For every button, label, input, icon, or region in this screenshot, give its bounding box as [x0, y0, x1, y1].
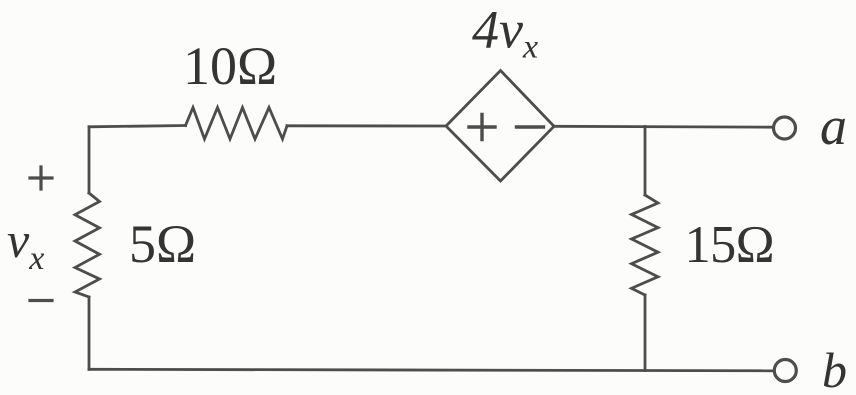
source plus sign	[469, 115, 495, 140]
wire left vertical lower	[88, 297, 91, 369]
wire right branch upper	[644, 127, 647, 196]
dependent source U1 diamond 4vx	[446, 71, 554, 182]
svg-text:vx: vx	[7, 212, 44, 277]
minus sign vx polarity	[30, 299, 52, 302]
svg-text:b: b	[822, 342, 847, 395]
wire right branch lower	[644, 295, 647, 371]
resistor R2 5ohm zigzag	[75, 193, 100, 297]
wire resistor to source	[287, 124, 446, 127]
wire source to terminal a	[554, 125, 774, 129]
resistor R1 10ohm zigzag	[186, 108, 288, 140]
source minus sign	[517, 125, 544, 128]
svg-text:15Ω: 15Ω	[685, 216, 774, 274]
terminal a circle	[774, 117, 796, 139]
svg-text:5Ω: 5Ω	[129, 214, 196, 274]
terminal b circle	[774, 360, 796, 382]
wire bottom horizontal	[89, 369, 775, 371]
svg-text:10Ω: 10Ω	[183, 36, 277, 96]
resistor R3 15ohm zigzag	[632, 195, 659, 295]
plus sign vx polarity	[30, 167, 52, 189]
svg-text:4vx: 4vx	[472, 0, 538, 66]
wire top-left horizontal	[89, 126, 186, 127]
wire left vertical upper	[88, 127, 91, 193]
svg-text:a: a	[820, 96, 847, 156]
